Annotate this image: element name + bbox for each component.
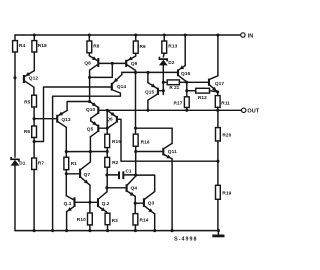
wire Q10 emitter diagonal <box>90 102 98 107</box>
node R14 bottom rail junction <box>134 229 137 232</box>
node Q17 emitter / R12 junction <box>216 90 219 93</box>
wire R12 left lead <box>187 90 196 92</box>
node Q16 emitter on top rail <box>184 33 187 36</box>
wire Q4 base lead <box>107 187 126 189</box>
node x52.6 bottom rail junction <box>51 229 54 232</box>
node R10 bottom rail junction <box>88 229 91 232</box>
wire R11 bottom lead <box>217 107 219 110</box>
svg-text:R17: R17 <box>174 100 183 106</box>
wire Q13 collector down to bus <box>65 127 67 151</box>
resistor R6 <box>32 126 37 138</box>
wire Q1 emitter down to rail <box>66 212 68 231</box>
svg-text:R5: R5 <box>24 100 31 106</box>
transistor Q15 (PNP) <box>157 88 159 95</box>
node Q11 collector / Q9 collector junction <box>134 127 137 130</box>
wire left rail Q12 node to D1 <box>14 78 16 157</box>
node Q15 base junction <box>162 89 165 92</box>
svg-text:R6: R6 <box>24 129 31 135</box>
resistor R13 <box>162 41 167 53</box>
wire Q17 collector riser to top rail <box>217 35 219 76</box>
wire R9 top lead <box>135 35 137 41</box>
svg-text:Q15: Q15 <box>145 90 155 96</box>
svg-text:S-4998: S-4998 <box>174 236 197 242</box>
wire Q8 collector down <box>89 70 91 101</box>
wire R16 bottom lead <box>135 146 137 175</box>
svg-text:R2: R2 <box>112 160 119 166</box>
wire Q1 emitter diagonal <box>67 207 74 212</box>
wire R12 right lead <box>210 91 218 92</box>
wire Q13 base from R5-R6 junction <box>34 118 56 120</box>
wire R15 to R2 <box>106 148 108 158</box>
wire Q15 base stub <box>162 91 164 95</box>
wire C1 left lead <box>107 174 118 176</box>
svg-text:R7: R7 <box>38 160 45 166</box>
wire Q15 emitter riser <box>147 72 149 82</box>
wire R6 to R7 <box>33 138 35 159</box>
node Q7 emitter / R10 junction on base bus <box>88 201 91 204</box>
wire Q17 emitter to R11 <box>217 92 219 96</box>
svg-text:IN: IN <box>248 33 254 39</box>
node C1 left junction <box>105 173 108 176</box>
wire Q11 base from R16 node <box>136 151 163 153</box>
wire Q1-Q2 base bus <box>76 201 97 203</box>
node bottom rail right end junction <box>217 229 220 232</box>
transistor Q6 (PNP) <box>116 116 118 123</box>
wire R14 bottom lead <box>134 225 136 231</box>
resistor R11 <box>215 96 220 108</box>
wire Q6 base lead and divider sense line <box>118 119 218 161</box>
wire Q13 emitter diagonal <box>58 111 67 116</box>
node Q15 collector on out rail <box>146 109 149 112</box>
svg-text:R3: R3 <box>112 218 119 224</box>
wire Q11 emitter down to rail <box>171 159 173 231</box>
node R17 on out rail <box>185 109 188 112</box>
node top rail R13 junction <box>163 33 166 36</box>
wire D2 anode down <box>162 65 164 91</box>
wire Q5 collector down to bus <box>89 137 91 152</box>
wire Q11 collector bus to Q9-collector node <box>136 127 173 129</box>
wire Q3 emitter diagonal <box>145 206 155 214</box>
node divider junction R20-R19 <box>216 160 219 163</box>
wire Q8-Q9 base bus <box>99 62 125 64</box>
resistor R12 <box>196 88 210 93</box>
wire Q15 collector down to out rail <box>147 100 149 110</box>
svg-text:R4: R4 <box>19 43 26 49</box>
svg-text:Q16: Q16 <box>181 71 191 77</box>
wire Q8 emitter diagonal <box>89 56 97 61</box>
transistor Q3 (NPN) <box>143 198 145 207</box>
wire mirror base vertical <box>106 110 108 128</box>
wire ground stub <box>217 231 219 236</box>
capacitor C1 <box>118 171 120 179</box>
resistor R4 <box>13 41 18 52</box>
wire Q4 emitter diagonal <box>128 191 136 196</box>
transistor Q10 (PNP) <box>97 107 99 114</box>
wire node to R15 <box>106 128 108 134</box>
svg-text:Q.2: Q.2 <box>102 201 110 207</box>
node mirror-base junction on out rail <box>106 109 109 112</box>
wire Q1 collector up to R1 node <box>65 174 67 196</box>
wire R8 bottom lead <box>88 53 90 56</box>
wire Q17 collector diagonal <box>210 76 218 79</box>
wire R18 bottom lead down <box>33 52 35 71</box>
resistor R9 <box>133 41 138 53</box>
wire Q16 emitter diagonal <box>179 66 185 70</box>
node Q11 emitter rail junction <box>171 229 174 232</box>
wire Q12 collector diagonal <box>25 81 34 87</box>
wire bottom ground rail <box>15 230 218 232</box>
diode D1 (zener) <box>11 157 19 162</box>
transistor Q5 (PNP) <box>97 125 99 132</box>
wire R21 right lead <box>179 81 186 83</box>
svg-text:Q7: Q7 <box>84 172 91 178</box>
transistor Q4 (NPN) <box>126 184 128 192</box>
wire Q14 emitter diagonal <box>113 75 122 84</box>
svg-text:D1: D1 <box>19 161 26 167</box>
node R6 bottom junction <box>33 140 36 143</box>
svg-text:R18: R18 <box>38 43 47 49</box>
resistor R19 <box>216 185 221 199</box>
resistor R5 <box>32 95 37 107</box>
svg-text:Q11: Q11 <box>168 149 177 155</box>
svg-text:R8: R8 <box>93 44 100 50</box>
resistor R8 <box>87 41 92 53</box>
wire Q2 emitter diagonal <box>99 207 106 212</box>
terminal IN <box>241 33 245 37</box>
wire Q2 emitter to R3 <box>106 212 107 214</box>
wire Q9 collector to bus <box>135 70 137 72</box>
node R5-R6 junction (Q13 base node) <box>33 117 36 120</box>
wire Q7 collector up to bus <box>89 152 91 162</box>
node Q16 collector / Q17 base junction <box>185 81 188 84</box>
node R18 top rail junction <box>33 33 36 36</box>
wire Q9 collector diagonal <box>127 65 135 71</box>
svg-text:R16: R16 <box>141 139 150 145</box>
node Q8 collector / Q13-Q10 emitter node <box>88 100 91 103</box>
transistor Q12 (PNP) <box>23 75 25 83</box>
wire Q7 emitter diagonal <box>81 177 90 185</box>
wire Q7 base lead <box>66 173 79 175</box>
wire Q12 collector down to R5 <box>33 87 35 95</box>
wire Q14 collector bus from corner x52.6 <box>53 90 121 231</box>
transistor Q14 (PNP) <box>111 83 113 91</box>
svg-text:Q17: Q17 <box>215 81 225 87</box>
diode D2 (zener) <box>159 57 167 62</box>
wire R21 left lead <box>163 81 167 83</box>
wire top supply rail <box>15 34 241 36</box>
wire out rail down to R20 <box>217 110 219 127</box>
svg-text:R10: R10 <box>77 217 86 223</box>
wire Q2 collector riser <box>106 188 108 192</box>
node Q15 emitter riser on bus <box>146 71 149 74</box>
svg-text:R9: R9 <box>140 44 147 50</box>
wire base-collector tie jog <box>90 63 113 77</box>
wire left rail R4 to Q12 base node <box>14 52 16 78</box>
wire R19 to bottom rail <box>217 199 219 230</box>
wire R10 from base bus <box>89 202 91 213</box>
resistor R10 <box>88 213 93 225</box>
resistor R7 <box>32 158 37 170</box>
node Q3 base junction <box>134 202 137 205</box>
wire R20 to R19 <box>217 141 219 185</box>
wire Q15 emitter diagonal <box>148 83 157 89</box>
transistor Q7 (NPN) <box>79 169 81 178</box>
wire Q17 base bus <box>187 81 208 83</box>
wire Q1 collector diagonal <box>66 196 73 200</box>
svg-text:OUT: OUT <box>247 109 259 115</box>
node R7 bottom rail junction <box>33 229 36 232</box>
node Q5 base junction <box>106 127 109 130</box>
svg-text:R1: R1 <box>71 161 78 167</box>
svg-text:Q10: Q10 <box>86 107 96 113</box>
node Q17 collector on top rail <box>216 33 219 36</box>
wire R1 bottom lead <box>65 170 67 174</box>
wire Q13 collector diagonal <box>58 122 66 127</box>
wire C1 node to Q3 collector <box>136 175 155 192</box>
svg-text:Q8: Q8 <box>84 60 91 66</box>
svg-text:Q9: Q9 <box>131 61 138 67</box>
node R16 bottom junction <box>134 150 137 153</box>
node Q4 base junction <box>105 186 108 189</box>
wire R13 to D2 <box>162 53 165 57</box>
wire Q3 base lead <box>135 202 143 204</box>
node R15-R2 junction <box>106 150 109 153</box>
svg-text:R20: R20 <box>222 133 231 139</box>
resistor R15 <box>105 134 110 147</box>
transistor Q9 (PNP) <box>125 60 127 67</box>
wire Q4 emitter down to R14 <box>134 196 136 213</box>
wire Q8 collector diagonal <box>90 65 98 71</box>
node R12 left junction <box>185 89 188 92</box>
wire Q11 emitter diagonal <box>164 155 172 159</box>
wire Q17 emitter diagonal <box>210 85 218 92</box>
wire Q16 emitter riser to top rail <box>184 35 186 66</box>
resistor R1 <box>64 157 69 170</box>
node C1 right / Q4 collector junction <box>134 174 137 177</box>
wire Q14 emitter bus y72.4 <box>122 72 177 74</box>
wire Q10 collector diagonal <box>91 114 98 119</box>
svg-text:Q4: Q4 <box>131 186 138 192</box>
wire R16 line from bus down <box>135 72 137 134</box>
wire Q13 collector bus to R15-R2 node <box>66 151 107 153</box>
wire R9 bottom lead <box>135 53 137 56</box>
transistor Q8 (PNP) <box>97 58 99 67</box>
wire Q16 collector diagonal <box>179 76 187 82</box>
transistor Q17 (NPN) <box>208 79 210 86</box>
node base tie on Q8-Q9 bus <box>111 62 114 65</box>
node Q1 emitter rail junction <box>65 229 68 232</box>
svg-text:R14: R14 <box>140 217 149 223</box>
wire output rail <box>99 109 241 111</box>
node R11 on out rail <box>216 109 219 112</box>
wire Q5 emitter diagonal <box>91 121 98 126</box>
svg-text:R 21: R 21 <box>169 85 179 90</box>
wire R13 top lead <box>163 35 165 41</box>
resistor R21 <box>167 80 179 85</box>
wire R5 to R6 <box>33 107 35 126</box>
resistor R2 <box>105 157 110 167</box>
wire Q11 collector diagonal <box>164 143 172 148</box>
wire R6 junction to Q14 base riser <box>34 87 111 142</box>
wire left rail D1 to bottom rail <box>14 165 16 231</box>
svg-text:R19: R19 <box>222 191 231 197</box>
wire Q5 collector diagonal <box>90 132 97 137</box>
node R1 top junction <box>65 150 68 153</box>
wire left rail upper segment <box>14 35 16 41</box>
resistor R18 <box>32 41 37 52</box>
transistor Q13 (PNP) <box>56 115 58 123</box>
wire Q9 emitter diagonal <box>127 56 136 61</box>
wire R8 top lead <box>88 35 90 41</box>
wire R1 from bus node <box>65 152 67 158</box>
wire R7 to bottom rail <box>33 170 35 231</box>
svg-text:Q12: Q12 <box>29 75 39 81</box>
wire C1 right lead <box>124 174 135 176</box>
wire Q6 emitter diagonal <box>107 110 116 116</box>
node R21 left junction <box>162 81 165 84</box>
terminal OUT <box>242 108 246 112</box>
node top rail R8 junction <box>88 33 91 36</box>
svg-text:R11: R11 <box>221 101 230 107</box>
node Q8 collector junction <box>88 76 91 79</box>
wire R18 top lead <box>33 35 35 41</box>
wire R18 to Q12 emitter diagonal <box>25 71 34 77</box>
svg-text:Q.1: Q.1 <box>64 201 72 207</box>
node top rail R9 junction <box>134 33 137 36</box>
wire Q15 base lead <box>159 90 163 92</box>
wire Q4 collector diagonal <box>128 176 136 185</box>
wire Q3 collector diagonal <box>145 192 155 199</box>
node R3 bottom rail junction <box>106 229 109 232</box>
wire R17 bottom lead <box>186 108 188 111</box>
svg-text:Q3: Q3 <box>148 201 155 207</box>
svg-text:C1: C1 <box>126 169 133 175</box>
wire Q5 base lead <box>99 127 107 129</box>
svg-text:Q13: Q13 <box>61 117 71 123</box>
wire Q3 emitter down to rail <box>154 214 156 231</box>
resistor R20 <box>216 128 221 141</box>
wire Q16 node down to R17 <box>186 82 188 97</box>
resistor R17 <box>184 97 189 108</box>
wire Q13 emitter riser <box>67 102 90 111</box>
wire Q7 emitter down to base bus <box>89 185 91 202</box>
node Q3 emitter rail junction <box>153 229 156 232</box>
resistor R3 <box>105 213 110 225</box>
resistor R16 <box>133 134 138 146</box>
node R1 bottom / Q7 base junction <box>65 172 68 175</box>
svg-text:R12: R12 <box>198 95 207 101</box>
transistor Q11 (NPN) <box>162 148 164 156</box>
svg-text:D2: D2 <box>168 60 175 66</box>
svg-text:Q5: Q5 <box>87 126 94 132</box>
node Q9 collector on bus <box>134 71 137 74</box>
wire R2 to C1 node <box>106 167 108 188</box>
svg-text:Q14: Q14 <box>117 84 127 90</box>
node Q12 base junction <box>13 76 16 79</box>
wire R3 bottom lead <box>107 225 109 231</box>
svg-text:R13: R13 <box>168 44 177 50</box>
transistor Q2 (NPN) <box>97 198 99 207</box>
wire Q15 collector diagonal <box>148 94 157 100</box>
wire R10 bottom lead <box>89 225 91 231</box>
transistor Q16 (PNP) <box>177 69 179 76</box>
ground symbol <box>212 235 224 238</box>
svg-text:R15: R15 <box>112 139 121 145</box>
node Q5-Q7 collector junction <box>89 150 92 153</box>
wire Q11 collector riser <box>171 128 173 143</box>
wire Q6 collector diagonal <box>108 122 116 128</box>
transistor Q1 (NPN) <box>73 197 75 207</box>
resistor R14 <box>133 214 138 225</box>
wire Q7 collector diagonal <box>81 162 90 169</box>
wire Q10 collector to Q5 emitter <box>90 118 92 121</box>
